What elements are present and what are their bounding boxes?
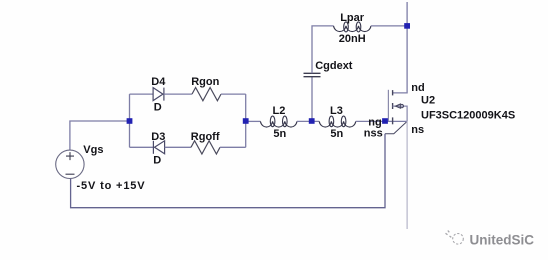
svg-text:nss: nss — [364, 128, 383, 140]
svg-text:D: D — [154, 102, 162, 114]
wire right rail to L2 — [246, 120, 261, 122]
watermark logo — [446, 231, 464, 245]
wire D4 to Rgon — [164, 93, 192, 95]
resistor Rgoff — [191, 141, 220, 154]
svg-text:5n: 5n — [273, 128, 286, 140]
svg-text:Rgoff: Rgoff — [191, 131, 220, 143]
kelvin source lead of U2 — [385, 122, 406, 134]
svg-text:ns: ns — [411, 124, 424, 136]
svg-text:D: D — [153, 155, 161, 167]
node junction right of bridge — [243, 118, 249, 124]
svg-text:nd: nd — [411, 82, 424, 94]
wire Rgoff to right rail — [220, 146, 246, 148]
wire nss return to Vgs — [71, 134, 385, 208]
wire L3 to gate (node ng) — [356, 120, 407, 122]
svg-text:D4: D4 — [151, 76, 166, 88]
capacitor Cgdext — [304, 73, 321, 76]
wire Cgdext upper lead to Lpar — [312, 26, 334, 73]
wire right rail of diode bridge — [245, 94, 247, 147]
svg-text:Rgon: Rgon — [191, 76, 219, 88]
wire Cgdext lower lead — [311, 77, 313, 121]
svg-text:UF3SC120009K4S: UF3SC120009K4S — [421, 109, 515, 121]
node ng junction — [382, 118, 388, 124]
svg-text:ng: ng — [368, 116, 381, 128]
svg-text:L3: L3 — [330, 105, 343, 117]
svg-text:-5V to +15V: -5V to +15V — [77, 180, 146, 192]
wire Vgs top to left rail — [70, 121, 130, 150]
node junction at Vgs/bridge — [127, 118, 133, 124]
diode D4 — [153, 88, 164, 101]
body bar with arrow — [393, 106, 408, 121]
channel ticks — [392, 90, 394, 124]
voltage source Vgs — [56, 150, 84, 178]
wire Rgon to right rail — [221, 93, 246, 95]
wire L2 to mid junction — [297, 120, 319, 122]
node junction Lpar/drain rail — [404, 23, 410, 29]
wire D3 to Rgoff — [165, 146, 191, 148]
svg-text:Lpar: Lpar — [340, 12, 365, 24]
wire source line (node ns) — [406, 121, 408, 229]
inductor L2 — [260, 116, 297, 127]
svg-text:D3: D3 — [151, 131, 165, 143]
wire Lpar to drain rail — [371, 25, 407, 27]
svg-text:L2: L2 — [273, 105, 286, 117]
inductor Lpar — [334, 22, 372, 32]
svg-text:20nH: 20nH — [339, 33, 366, 45]
svg-text:UnitedSiC: UnitedSiC — [470, 233, 535, 248]
gate bar — [387, 90, 389, 122]
resistor Rgon — [192, 88, 221, 101]
wire top branch left lead — [130, 93, 154, 95]
svg-text:5n: 5n — [330, 128, 343, 140]
node junction L2/L3/Cgdext — [309, 118, 315, 124]
svg-text:U2: U2 — [421, 94, 435, 106]
svg-text:Cgdext: Cgdext — [315, 60, 353, 72]
inductor L3 — [319, 116, 356, 127]
transistor U2 — [388, 90, 407, 125]
svg-text:Vgs: Vgs — [83, 144, 103, 156]
wire drain rail (node nd) — [393, 2, 408, 93]
wire bottom branch left lead — [130, 146, 154, 148]
diode D3 — [153, 141, 164, 154]
wire left rail of diode bridge — [129, 94, 131, 147]
